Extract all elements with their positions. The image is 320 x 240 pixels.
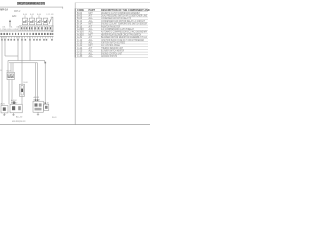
svg-text:B-07: B-07 (7, 70, 11, 72)
svg-text:A: A (11, 74, 13, 78)
svg-text:MPI-2A: MPI-2A (0, 8, 8, 11)
svg-text:D: D (8, 74, 10, 78)
svg-text:A/C: A/C (12, 14, 16, 18)
svg-text:90-3: 90-3 (52, 117, 57, 119)
svg-text:AC-20: AC-20 (16, 115, 23, 118)
svg-text:B-08: B-08 (24, 82, 28, 84)
svg-text:www.2carpros.com: www.2carpros.com (12, 120, 26, 123)
svg-text:MPI-2: MPI-2 (14, 10, 21, 13)
svg-text:C-12 J/B: C-12 J/B (46, 14, 54, 16)
svg-text:CIRCUIT DIAGRAMS A/C SYS: CIRCUIT DIAGRAMS A/C SYS (17, 2, 45, 6)
